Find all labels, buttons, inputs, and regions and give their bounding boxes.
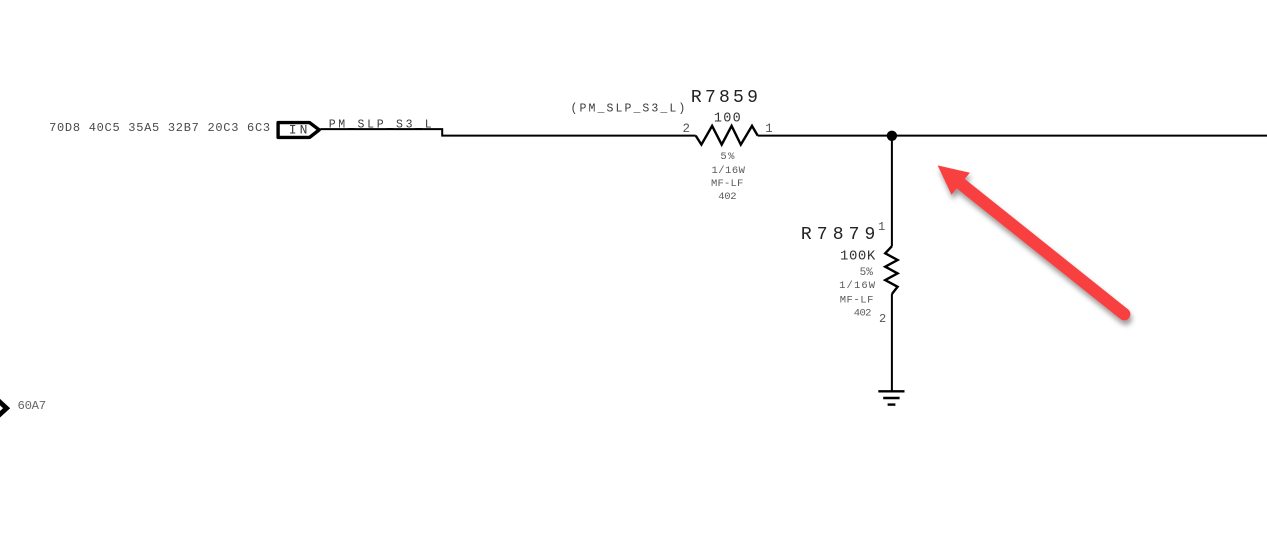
wire from IN connector with jog down: [320, 129, 695, 136]
wire right rail to sheet edge: [758, 135, 1267, 137]
svg-text:R7859: R7859: [691, 88, 758, 108]
junction node dot: [887, 131, 897, 141]
ground symbol: [878, 391, 904, 404]
svg-text:1: 1: [878, 220, 885, 234]
svg-text:402: 402: [718, 191, 736, 203]
off-page chevron (bottom left): [0, 400, 7, 417]
svg-text:MF-LF: MF-LF: [840, 294, 874, 306]
wire junction down to R7879 pin 1: [891, 136, 893, 246]
connector IN (off-page input port): [278, 123, 319, 138]
resistor R7879 body (vertical zigzag): [885, 246, 897, 294]
resistor R7859 body (horizontal zigzag): [696, 126, 758, 145]
svg-text:100K: 100K: [840, 248, 876, 264]
svg-text:5%: 5%: [860, 267, 874, 279]
wire R7879 pin 2 to ground: [891, 294, 893, 391]
svg-text:1: 1: [765, 122, 773, 136]
red annotation arrow: [938, 165, 1125, 314]
svg-text:402: 402: [854, 308, 872, 320]
svg-text:2: 2: [682, 122, 690, 136]
svg-text:MF-LF: MF-LF: [711, 178, 743, 190]
svg-text:5%: 5%: [720, 151, 735, 163]
svg-text:R7879: R7879: [801, 225, 875, 245]
svg-text:70D8 40C5 35A5 32B7 20C3 6C3: 70D8 40C5 35A5 32B7 20C3 6C3: [49, 121, 270, 135]
svg-text:60A7: 60A7: [18, 399, 47, 413]
svg-text:1/16W: 1/16W: [839, 280, 876, 292]
svg-text:2: 2: [879, 312, 886, 326]
svg-text:(PM_SLP_S3_L): (PM_SLP_S3_L): [571, 103, 686, 116]
svg-text:1/16W: 1/16W: [712, 165, 746, 177]
svg-text:100: 100: [714, 112, 741, 127]
